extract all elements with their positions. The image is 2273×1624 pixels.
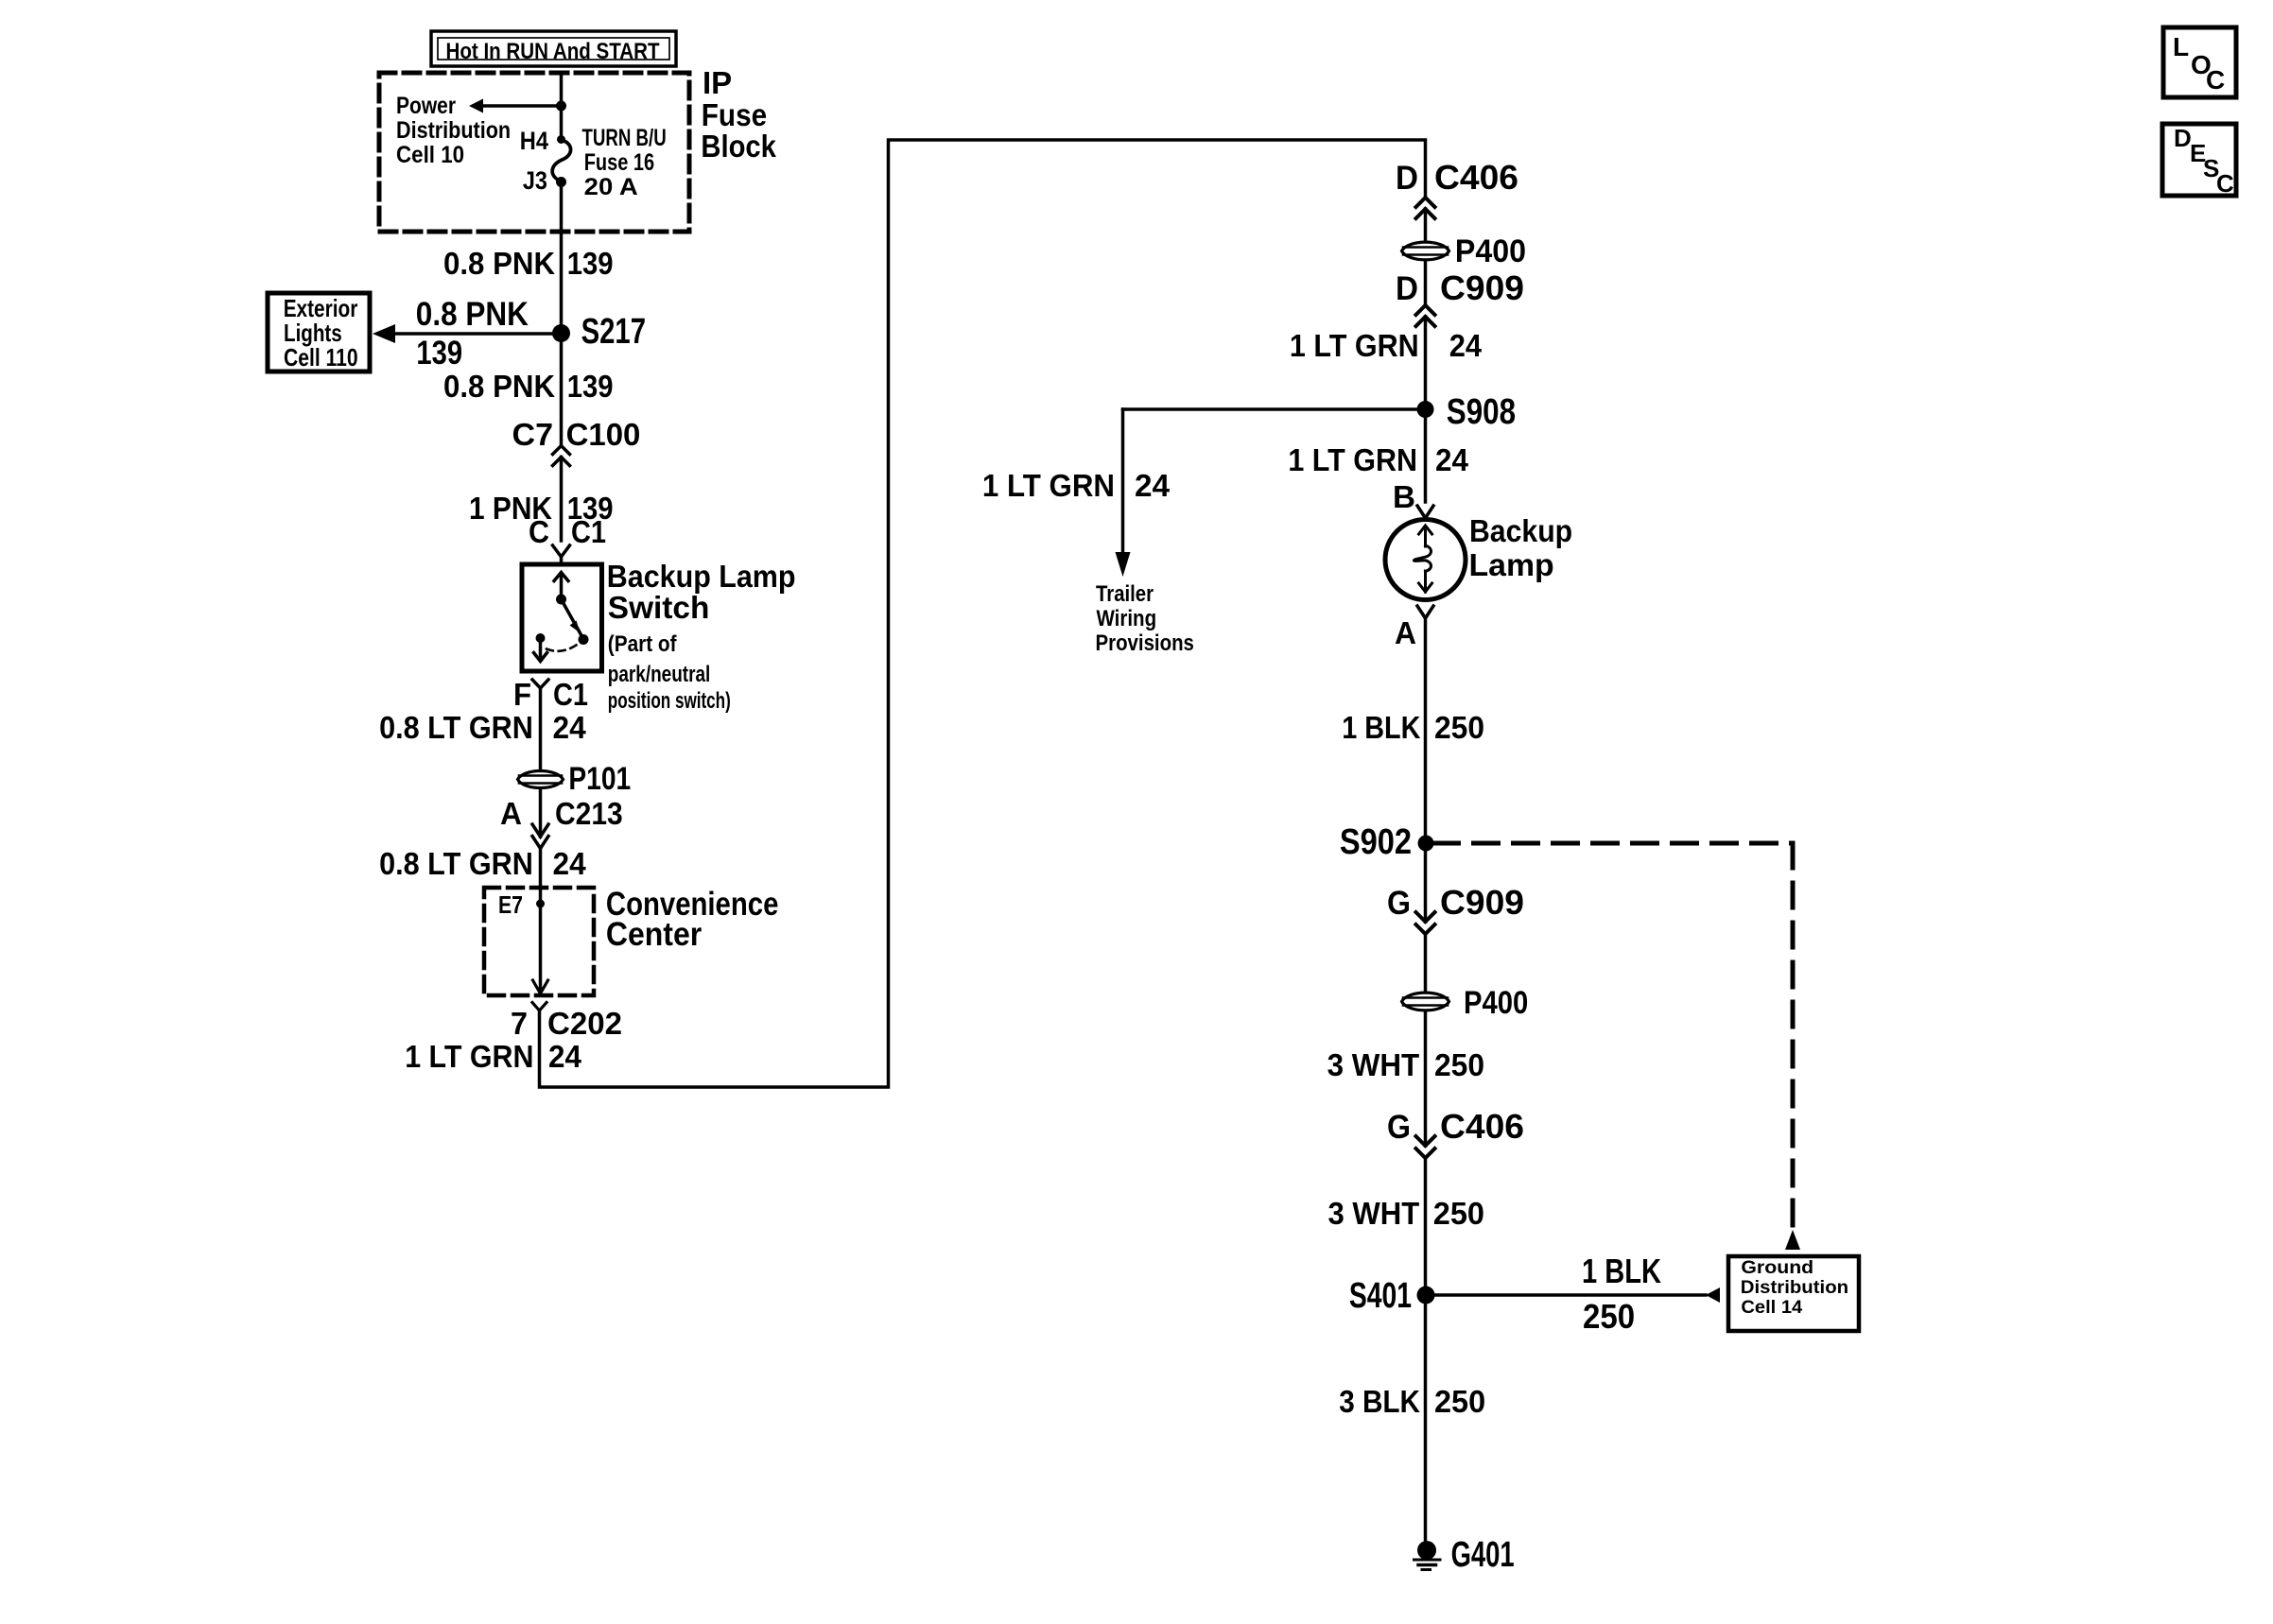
- svg-text:24: 24: [1449, 328, 1483, 363]
- link box DESC: [2162, 124, 2236, 198]
- svg-text:3 WHT: 3 WHT: [1328, 1196, 1420, 1231]
- svg-text:C: C: [529, 514, 549, 549]
- svg-text:24: 24: [1135, 468, 1171, 503]
- svg-text:Center: Center: [606, 916, 703, 953]
- label: 1 BLK 250 (ground lead): [1582, 1252, 1661, 1336]
- label: 3 WHT 250: [1327, 1047, 1484, 1082]
- wire: C406 to P400: [1424, 209, 1428, 240]
- svg-text:1 LT GRN: 1 LT GRN: [1290, 328, 1419, 363]
- wire: S401 to Ground Distribution with arrow: [1426, 1287, 1720, 1303]
- splice S908: [1417, 392, 1517, 432]
- wire: F to P101: [539, 688, 543, 769]
- label: IP Fuse Block: [701, 65, 776, 164]
- svg-text:A: A: [1395, 615, 1416, 650]
- svg-text:Provisions: Provisions: [1096, 631, 1194, 656]
- svg-text:24: 24: [1435, 442, 1469, 477]
- wire: feed into fuse block: [560, 73, 564, 140]
- svg-text:Lamp: Lamp: [1469, 547, 1554, 582]
- wire: branch to Power Distribution with arrow: [469, 99, 562, 113]
- pin B of backup lamp: [1393, 479, 1433, 518]
- wire: C406 down through S401 to G401: [1424, 1157, 1428, 1543]
- svg-text:Cell 14: Cell 14: [1741, 1298, 1802, 1318]
- svg-text:Power: Power: [396, 93, 456, 119]
- svg-text:24: 24: [548, 1039, 582, 1074]
- svg-text:1 BLK: 1 BLK: [1342, 710, 1420, 745]
- svg-text:G401: G401: [1451, 1535, 1515, 1575]
- label: 3 BLK 250: [1339, 1384, 1485, 1419]
- svg-text:C202: C202: [547, 1006, 622, 1041]
- svg-text:C909: C909: [1440, 268, 1524, 307]
- svg-text:H4: H4: [520, 127, 548, 155]
- svg-text:Distribution: Distribution: [396, 117, 511, 144]
- connector A C213: [500, 789, 623, 849]
- wire: C909 to P400: [1424, 933, 1428, 991]
- svg-text:139: 139: [567, 246, 614, 281]
- wire: lamp A down through S902 to C909: [1424, 618, 1428, 922]
- wire: C100 to switch pin C: [560, 458, 564, 542]
- backup lamp: [1385, 513, 1572, 600]
- pin E7: [498, 890, 545, 919]
- connector D C909: [1396, 268, 1524, 326]
- connector D C406: [1396, 158, 1518, 218]
- label: 0.8 PNK 139 (exterior feed): [416, 296, 529, 371]
- switch contact with arrow: [534, 633, 547, 662]
- svg-text:C909: C909: [1440, 883, 1524, 922]
- splice S401: [1349, 1276, 1435, 1316]
- svg-text:Wiring: Wiring: [1097, 606, 1157, 631]
- svg-text:TURN B/U: TURN B/U: [582, 125, 667, 151]
- pin 7 of connector C202: [511, 1003, 622, 1042]
- svg-text:F: F: [513, 677, 531, 712]
- svg-text:250: 250: [1434, 1384, 1485, 1419]
- ground G401: [1414, 1535, 1515, 1575]
- svg-text:Distribution: Distribution: [1741, 1278, 1848, 1298]
- label box: Ground Distribution Cell 14: [1728, 1256, 1859, 1331]
- svg-text:Trailer: Trailer: [1096, 581, 1154, 607]
- wire exit arrow at convenience center bottom: [533, 980, 548, 993]
- svg-text:Fuse: Fuse: [702, 97, 767, 132]
- pass-through grommet P101: [518, 761, 632, 797]
- svg-text:0.8 PNK: 0.8 PNK: [416, 296, 529, 333]
- svg-text:G: G: [1387, 1109, 1411, 1146]
- svg-text:250: 250: [1583, 1297, 1635, 1336]
- svg-text:Backup Lamp: Backup Lamp: [607, 559, 796, 594]
- svg-text:0.8 PNK: 0.8 PNK: [443, 369, 555, 404]
- pin C of connector C1: [529, 514, 606, 564]
- svg-text:S401: S401: [1349, 1276, 1412, 1316]
- svg-text:0.8 LT GRN: 0.8 LT GRN: [379, 846, 533, 881]
- svg-text:A: A: [500, 796, 522, 831]
- Convenience Center dashed box: [484, 886, 778, 995]
- svg-text:position switch): position switch): [608, 688, 731, 714]
- node: fuse block junction: [556, 101, 566, 112]
- wire: C213 into convenience center: [539, 848, 543, 991]
- svg-text:7: 7: [511, 1006, 528, 1041]
- svg-text:0.8 LT GRN: 0.8 LT GRN: [379, 710, 533, 745]
- pin A of backup lamp: [1395, 606, 1433, 650]
- svg-text:C1: C1: [571, 514, 606, 549]
- connector G C406: [1387, 1107, 1524, 1158]
- wire: C909 down through S908: [1424, 317, 1428, 502]
- svg-text:250: 250: [1434, 710, 1484, 745]
- svg-text:1 LT GRN: 1 LT GRN: [405, 1039, 533, 1074]
- svg-text:Block: Block: [701, 129, 776, 164]
- switch travel arc (dashed): [547, 644, 579, 651]
- label: 1 LT GRN 24 (trailer branch): [982, 468, 1171, 503]
- label: Power Distribution Cell 10: [396, 93, 511, 168]
- svg-text:Switch: Switch: [608, 590, 710, 625]
- svg-text:1 BLK: 1 BLK: [1582, 1252, 1661, 1290]
- svg-text:Cell 110: Cell 110: [284, 343, 358, 371]
- connector C7 C100: [512, 417, 641, 466]
- svg-text:E7: E7: [498, 890, 523, 919]
- label: 1 LT GRN 24 (above S908): [1290, 328, 1483, 363]
- svg-text:24: 24: [553, 710, 587, 745]
- switch blade: [562, 599, 589, 645]
- link box LOC: [2163, 27, 2236, 97]
- pin J3: [523, 166, 566, 195]
- svg-text:C406: C406: [1440, 1107, 1524, 1146]
- svg-text:250: 250: [1433, 1196, 1484, 1231]
- svg-text:D: D: [1396, 160, 1418, 197]
- IP Fuse Block dashed box: [379, 73, 689, 232]
- svg-text:IP: IP: [703, 65, 732, 100]
- label: 1 BLK 250: [1342, 710, 1484, 745]
- label: Backup Lamp Switch (Part of park/neutral position switch): [607, 559, 796, 714]
- svg-text:D: D: [2174, 124, 2192, 152]
- pass-through grommet P400: [1402, 233, 1527, 269]
- svg-text:139: 139: [416, 335, 462, 371]
- label box: Exterior Lights Cell 110: [268, 293, 370, 371]
- svg-text:L: L: [2173, 32, 2189, 61]
- wire: S217 to Exterior Lights with arrow: [373, 324, 562, 343]
- label: 0.8 LT GRN 24 (second): [379, 846, 586, 881]
- wire: P400 to C406: [1424, 1013, 1428, 1146]
- svg-text:J3: J3: [523, 166, 547, 195]
- splice S217: [552, 312, 646, 352]
- label: 0.8 LT GRN 24: [379, 710, 586, 745]
- svg-text:Hot In RUN And START: Hot In RUN And START: [446, 39, 660, 64]
- svg-text:S217: S217: [581, 312, 646, 352]
- svg-text:B: B: [1393, 479, 1415, 514]
- label: 3 WHT 250 (second): [1328, 1196, 1485, 1231]
- svg-text:0.8 PNK: 0.8 PNK: [443, 246, 555, 281]
- pin H4: [520, 127, 565, 155]
- svg-text:C: C: [2206, 65, 2225, 95]
- dashed link: S902 to Ground Distribution: [1434, 843, 1801, 1250]
- svg-text:C7: C7: [512, 417, 554, 452]
- svg-text:24: 24: [553, 846, 587, 881]
- switch common terminal arrow: [554, 573, 568, 605]
- label: 0.8 PNK 139 (below S217): [443, 369, 614, 404]
- svg-text:Ground: Ground: [1741, 1258, 1813, 1278]
- label: 0.8 PNK 139: [443, 246, 614, 281]
- svg-text:C1: C1: [553, 677, 588, 712]
- label box: Hot In RUN And START: [431, 31, 676, 66]
- svg-text:3 WHT: 3 WHT: [1327, 1047, 1420, 1082]
- label: Trailer Wiring Provisions: [1096, 581, 1194, 656]
- svg-text:S902: S902: [1340, 822, 1412, 862]
- wire: C202 routed to right circuit: [540, 140, 1426, 1087]
- svg-text:C406: C406: [1434, 158, 1518, 197]
- svg-text:C100: C100: [566, 417, 641, 452]
- backup lamp switch box: [522, 564, 602, 671]
- svg-text:D: D: [1396, 270, 1418, 307]
- svg-text:20 A: 20 A: [584, 174, 638, 200]
- label: 1 LT GRN 24 (below S908): [1288, 442, 1468, 477]
- svg-text:Backup: Backup: [1469, 513, 1572, 548]
- pass-through grommet P400 (second): [1402, 985, 1529, 1021]
- splice S902: [1340, 822, 1434, 862]
- svg-text:P400: P400: [1464, 985, 1528, 1021]
- svg-text:1 LT GRN: 1 LT GRN: [1288, 442, 1417, 477]
- label: 1 PNK 139: [469, 491, 614, 526]
- pin F of connector C1: [513, 677, 588, 712]
- wire: S908 branch to trailer wiring with arrow: [1116, 409, 1426, 577]
- svg-text:G: G: [1387, 885, 1411, 922]
- svg-text:1 LT GRN: 1 LT GRN: [982, 468, 1115, 503]
- wire: J3 down to C100: [560, 182, 564, 446]
- label: 1 LT GRN 24: [405, 1039, 581, 1074]
- svg-text:Cell 10: Cell 10: [396, 142, 464, 168]
- svg-text:(Part of: (Part of: [608, 631, 678, 657]
- svg-text:Fuse 16: Fuse 16: [584, 149, 654, 176]
- svg-text:139: 139: [567, 369, 614, 404]
- svg-text:S908: S908: [1447, 392, 1516, 432]
- svg-text:250: 250: [1434, 1047, 1484, 1082]
- svg-text:C: C: [2216, 169, 2234, 198]
- fuse TURN B/U Fuse 16 20 A: [552, 125, 667, 200]
- svg-text:C213: C213: [555, 796, 623, 831]
- svg-text:P400: P400: [1455, 233, 1526, 269]
- wire: P400 to C909: [1424, 262, 1428, 305]
- svg-text:P101: P101: [568, 761, 631, 797]
- svg-text:park/neutral: park/neutral: [608, 662, 711, 687]
- svg-text:3 BLK: 3 BLK: [1339, 1384, 1420, 1419]
- connector G C909: [1387, 883, 1524, 934]
